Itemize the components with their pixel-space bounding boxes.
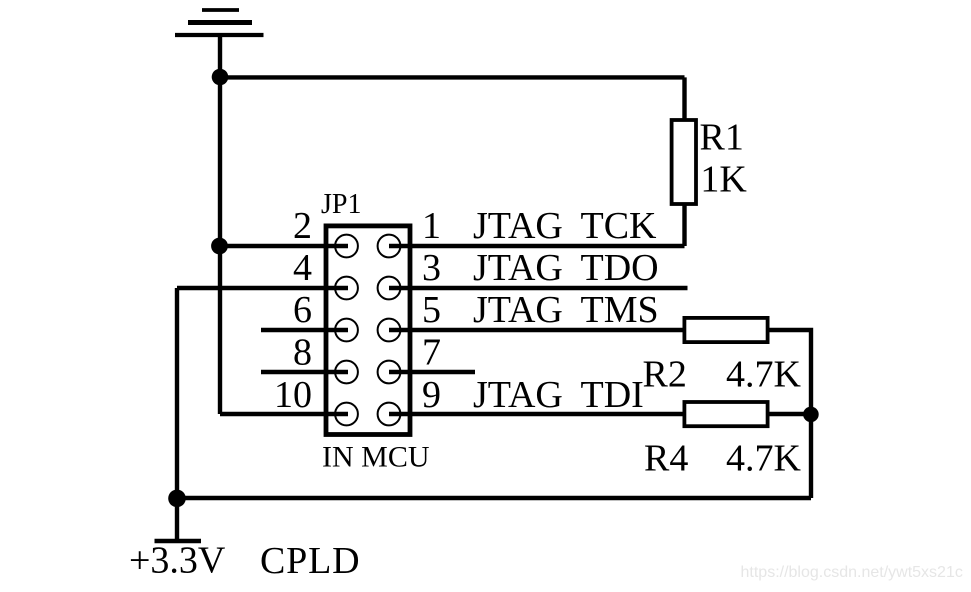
svg-text:1K: 1K — [700, 158, 747, 200]
svg-text:5: 5 — [422, 289, 441, 331]
svg-text:8: 8 — [293, 332, 312, 374]
svg-text:9: 9 — [422, 374, 441, 416]
svg-text:4.7K: 4.7K — [726, 438, 802, 480]
svg-text:R2: R2 — [643, 354, 687, 396]
svg-text:IN MCU: IN MCU — [322, 441, 430, 474]
svg-text:CPLD: CPLD — [260, 540, 360, 582]
svg-text:2: 2 — [293, 205, 312, 247]
svg-text:TDI: TDI — [581, 374, 644, 416]
svg-text:6: 6 — [293, 289, 312, 331]
svg-text:+3.3V: +3.3V — [129, 540, 226, 582]
svg-text:JTAG: JTAG — [473, 205, 563, 247]
svg-text:10: 10 — [274, 374, 312, 416]
svg-text:TCK: TCK — [581, 205, 658, 247]
svg-text:JP1: JP1 — [321, 189, 361, 220]
svg-text:https://blog.csdn.net/ywt5xs21: https://blog.csdn.net/ywt5xs21c — [741, 564, 963, 581]
svg-text:4.7K: 4.7K — [726, 354, 802, 396]
svg-text:4: 4 — [293, 247, 312, 289]
svg-text:TMS: TMS — [581, 289, 659, 331]
svg-text:R4: R4 — [644, 438, 688, 480]
svg-text:JTAG: JTAG — [473, 374, 563, 416]
svg-text:3: 3 — [422, 247, 441, 289]
svg-text:R1: R1 — [700, 117, 744, 159]
svg-text:JTAG: JTAG — [473, 289, 563, 331]
svg-text:1: 1 — [422, 205, 441, 247]
svg-text:TDO: TDO — [581, 247, 659, 289]
svg-text:JTAG: JTAG — [473, 247, 563, 289]
svg-text:7: 7 — [422, 332, 441, 374]
